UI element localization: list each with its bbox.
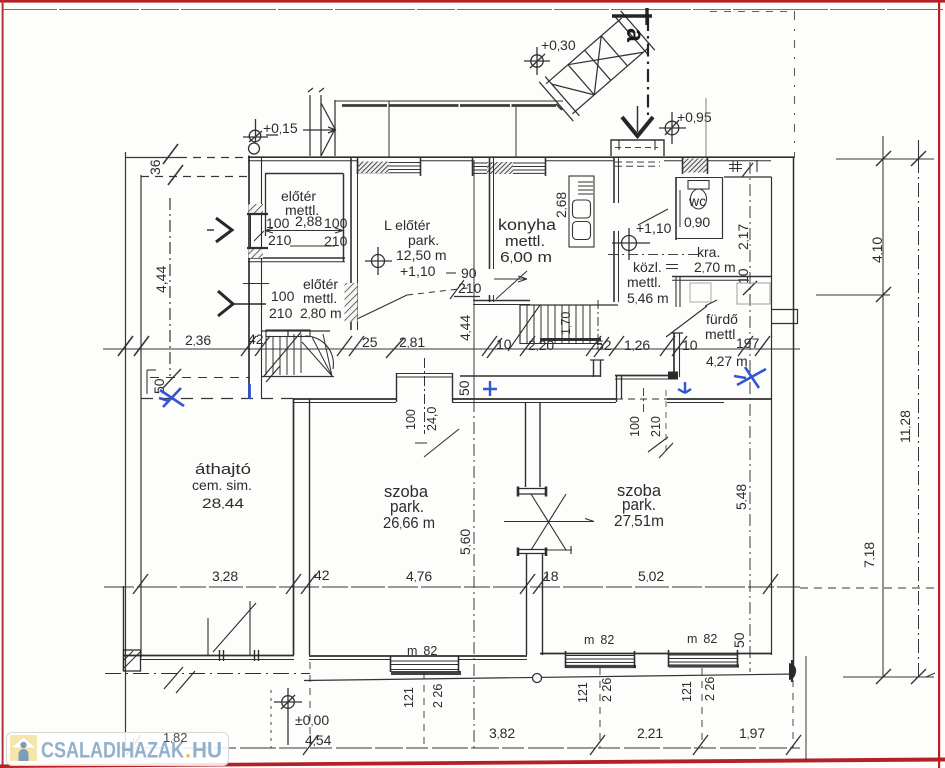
right interior dim chain dash-dot x=750 (749, 162, 751, 672)
hatch block west wall upper bottom line (247, 213, 268, 215)
chimney upper cap end blobs (518, 487, 546, 497)
watermark house roof (11, 737, 36, 748)
svg-text:.: . (185, 738, 191, 763)
szoba2 window2 dark band (669, 664, 739, 667)
west outer wall of front block (248, 156, 250, 400)
top-right dashed section continuation (794, 12, 796, 158)
level circle kozl (622, 236, 637, 251)
chimney diag lower (531, 494, 566, 550)
basement stair bottom line (520, 343, 602, 345)
divider wall athajto inner (309, 399, 311, 655)
roof support tick x=389 (388, 101, 390, 157)
szoba1 window bay left jamb (396, 373, 398, 402)
west wall door jamb lines (251, 214, 262, 248)
vent shaft left rail (309, 95, 311, 156)
wc cistern (688, 181, 709, 190)
entry door dashes in top wall (615, 162, 660, 166)
elorter block east wall outer (350, 157, 352, 330)
szoba1 window sill dark band (391, 671, 461, 675)
basement stair left wall (519, 305, 521, 344)
furdo wall stub inner (679, 333, 681, 377)
szoba2 door dashes (616, 398, 667, 400)
konyha door dim line with arrow (494, 276, 527, 282)
szoba dim line y=587 (104, 586, 800, 588)
dim line room1 with arrows (265, 228, 343, 233)
blue plus mark x=490 (483, 381, 497, 396)
tick slash 36 top (163, 144, 178, 164)
chevron 2 line to wall (233, 303, 266, 305)
right margin bottom arrow (926, 673, 935, 677)
hatch block east wall lower (345, 283, 358, 322)
closet jut right wall (771, 310, 798, 324)
inner wall y=376 konyha-stair block (460, 375, 601, 377)
kitchen sink 2 (573, 222, 591, 240)
vent triangle lower diagonal (321, 129, 335, 156)
chimney box above wall (611, 140, 664, 156)
szoba2 door jambs (617, 375, 622, 402)
szoba dim line y=588 right margin dashes (800, 587, 934, 589)
chimney mid horizontal (504, 519, 594, 522)
szoba1 window sill band edge (391, 669, 459, 671)
kamra top wall outer (672, 276, 771, 278)
garage stair bottom line (262, 376, 334, 378)
watermark person head (20, 742, 26, 748)
kozl level dash line (608, 254, 700, 256)
left 50 bracket vertical (146, 370, 148, 394)
szoba2 window2 end ticks (669, 650, 738, 667)
hatch block west wall lower top line (247, 247, 268, 249)
ladder brace 2 (568, 36, 627, 95)
basement stair thick tread (540, 338, 601, 341)
extension dash x=600 (599, 668, 601, 748)
vent top ticks (308, 88, 324, 92)
small dim ticks right of wc window (733, 160, 757, 172)
slash at x=666 y=450 (659, 443, 673, 458)
middle dim line y=349 (103, 348, 800, 350)
roof support tick x=516 (515, 107, 517, 157)
furdo door swing diagonal (666, 306, 707, 337)
szoba row top wall inner (293, 402, 724, 404)
stub wall between stair and furdo (460, 360, 604, 377)
szoba row top wall outer (293, 398, 772, 400)
middle dim slashes (241, 336, 770, 358)
szoba1 window sill end ticks (391, 656, 459, 672)
center interior dim chain x=474 upper solid (473, 160, 475, 400)
left second dimension line x=141 (140, 175, 142, 658)
garage left post hatch (124, 651, 140, 668)
stub wall cap (590, 359, 604, 361)
basement stair dash-dot center (597, 300, 599, 350)
garage stair landing rect 1 (266, 330, 288, 337)
right dim slash at 883 (876, 151, 891, 166)
kozl-wc door swing (638, 209, 668, 225)
window B sill lines x472-545 (472, 163, 545, 173)
szoba2 bottom wall outer (540, 653, 772, 655)
kitchen unit outline (569, 176, 594, 247)
konyha bottom wall outer (473, 300, 530, 302)
furdo bottom wall outer (615, 375, 672, 377)
level circle front hall cross (365, 247, 392, 275)
ladder brace 3 (552, 68, 594, 112)
slash on 50 bracket (163, 369, 181, 388)
vent arrow line (303, 127, 336, 133)
garage door swing diagonal (213, 603, 256, 652)
small tick pair crossing west wall y=283 (243, 283, 269, 285)
szoba2 window1 dark band (566, 665, 636, 668)
tick slash near 745,170 (742, 163, 753, 177)
szoba1 window sill lines (390, 661, 458, 665)
level marker circle +0,95 (665, 121, 679, 135)
garage door jamb x=208 (207, 618, 209, 655)
ladder rail upper (572, 48, 647, 114)
bottom dim slashes (126, 735, 801, 755)
szoba1 window lines (396, 374, 452, 378)
window A sill lines x357-420 (357, 163, 420, 173)
garage stair diagonal (264, 332, 301, 376)
vent shaft right rail (334, 100, 336, 156)
garage stair landing rect 2 (288, 330, 310, 337)
szoba1 bottom wall inner (309, 659, 527, 661)
blue X mark right (734, 367, 766, 388)
watermark icon yellow square (10, 735, 37, 761)
chimney lower cap extension (546, 546, 572, 554)
west wall door slash (254, 231, 264, 241)
konyha east wall inner (618, 158, 620, 302)
furdo bottom wall inner (615, 378, 672, 380)
szoba1 window center dashline (424, 358, 426, 434)
top-right dashed horizontal y=11 (710, 11, 795, 13)
ladder rungs (568, 36, 627, 95)
right margin hline y=295 (816, 294, 890, 296)
dashed line y=398 garage top main (141, 398, 293, 400)
extension dash x=271 (270, 690, 272, 748)
window B end ticks (473, 158, 546, 176)
faint dash vertical x=666 (665, 390, 667, 455)
szoba2 window1 sill lines (565, 656, 634, 663)
right margin slash y=295 (876, 287, 891, 302)
section cut dash-dot line (647, 18, 649, 115)
blue arrow mark x=685 (678, 382, 691, 393)
window A end ticks (358, 158, 421, 176)
eloter rooms divider wall y=258 (248, 257, 345, 259)
extension dash x=310 (309, 662, 311, 750)
scan frame bottom red line (0, 758, 945, 768)
scan frame left red line (2, 0, 4, 768)
garage bottom wall outer (123, 655, 294, 657)
wc room east line (722, 178, 724, 240)
right margin bottom slashes (876, 669, 926, 684)
szoba1 bottom wall outer (309, 655, 527, 657)
wash basin faint (690, 283, 711, 302)
furdo door swing tip (705, 300, 717, 306)
slash on right chain y=288 (743, 281, 757, 295)
wc west wall (675, 177, 677, 240)
right margin vline x=883 (882, 159, 884, 677)
szoba1 window label slash (424, 429, 459, 457)
eaves tick line y=157 left (125, 157, 179, 159)
level marker circle +0,30 (531, 55, 543, 67)
window B hatch block (487, 162, 513, 174)
basement stair top line (520, 304, 618, 306)
right dim stub x=918 (918, 140, 920, 160)
chimney upper stub west line (525, 402, 527, 487)
garage stair steps (266, 334, 301, 375)
szoba1 window bay right jamb (452, 373, 454, 402)
wc room top line (676, 177, 723, 179)
attic ladder group rotated (539, 11, 655, 121)
section mark a: cross tick (645, 8, 648, 25)
slash at stair edge on dash line (266, 366, 280, 382)
chimney upper stub east line (539, 402, 541, 487)
right dim slash at 918 (911, 151, 926, 166)
eloter room1 right wall (343, 174, 345, 263)
konyha east wall outer (613, 158, 615, 302)
roof band end hook (556, 104, 562, 110)
bath tub faint outline (737, 283, 770, 304)
eloter room1 inner door line (290, 245, 335, 247)
konyha west wall inner (493, 158, 495, 302)
dashed line y=377 garage top (150, 377, 250, 379)
roof overhang thin line y=101 (335, 100, 563, 102)
szoba1 window small hline (415, 442, 427, 444)
door swing dashes continue (407, 288, 468, 295)
kitchen sink 1 (573, 200, 591, 218)
blue tick mark x=249 (248, 384, 251, 399)
konyha west wall outer (489, 158, 491, 302)
underline of 210 (454, 296, 480, 298)
right top dim line y=159 (836, 158, 934, 160)
right dim stub x=883 (882, 136, 884, 160)
entry chevron 1 (216, 218, 232, 242)
corner dark blob (789, 663, 796, 680)
right inner wall top corner line y=177 (724, 176, 772, 178)
ladder end cap left (615, 11, 655, 55)
furdo stub cap (671, 332, 683, 334)
chimney upper cap lines (518, 489, 546, 495)
entrance arrow stem (637, 106, 639, 132)
terrace ground line right (304, 674, 795, 681)
chimney lower cap end blobs (518, 548, 546, 557)
building right outer wall (793, 158, 795, 673)
garage stair top line (262, 330, 330, 332)
chimney box inner dashes (615, 147, 658, 149)
chimney lower stub east (542, 554, 544, 655)
watermark csaladihazak.hu (6, 732, 229, 766)
kamra top wall inner (672, 279, 749, 281)
garage outer west wall lower (123, 586, 125, 671)
chimney lower cap lines (518, 550, 546, 554)
terrace circle left end (533, 674, 542, 683)
dim slash on x=141 at y=349 (134, 336, 149, 356)
slash between 90 210 (450, 280, 464, 299)
garage stair winder radials (302, 334, 332, 376)
svg-text:CSALADIHAZAK: CSALADIHAZAK (41, 738, 184, 763)
vent triangle upper diagonal (321, 103, 335, 129)
corner blob stem (791, 660, 793, 682)
stub wall verticals x=593-601 (594, 360, 601, 377)
main top wall inner line (248, 160, 771, 162)
scan frame top red line (0, 0, 945, 3)
window C end ticks (683, 158, 708, 174)
chimney lower stub west (526, 554, 528, 655)
window C hatch block wc (683, 159, 708, 173)
szoba2 door center dashdot (643, 388, 645, 412)
extension solid x=806 (805, 656, 807, 760)
gate tick pair 1 (220, 650, 224, 661)
eloter rooms divider wall inner (248, 261, 345, 263)
level marker +0,95 cross (659, 112, 686, 144)
szoba2 window1 end ticks (566, 651, 635, 668)
level circle 0,00 cross (274, 688, 302, 745)
level circle 0,00 (282, 696, 295, 709)
gate tick pair 2 (255, 650, 259, 661)
equal ticks left of kamra (666, 265, 678, 269)
wc bowl (691, 189, 707, 209)
scan top gray edge line (2, 9, 943, 11)
garage apron line y=673 (105, 673, 310, 675)
furdo bottom wall dark post (668, 372, 678, 380)
chimney diag upper (531, 494, 566, 550)
garage stair arc (305, 336, 333, 369)
level marker cross lines (243, 119, 268, 142)
garage apron slash 1 (164, 667, 183, 689)
dim slash on x=125 at y=349 (118, 336, 133, 356)
main top wall outer line (248, 156, 794, 158)
divider wall athajto outer (293, 399, 295, 655)
garage bottom wall inner (141, 659, 294, 661)
blue X mark left (159, 388, 184, 407)
szoba dim slashes y=587 (133, 574, 778, 594)
right margin bottom line y=677 (843, 676, 934, 678)
wc room bottom line (676, 238, 723, 240)
hatch block west wall lower (249, 249, 264, 258)
building right inner wall (771, 177, 773, 655)
faint vertical x=706 (705, 98, 707, 158)
section mark a: thick bar (612, 14, 652, 17)
extension dash x=702 (701, 668, 703, 748)
scan frame right red line (938, 0, 940, 768)
svg-text:HU: HU (192, 738, 222, 763)
underline of +0,15 (266, 134, 278, 136)
furdo wall stub at door (673, 333, 675, 377)
door swing diagonal from east wall (357, 295, 407, 319)
dashed eaves line y=157 to building (179, 157, 248, 159)
konyha door swing (496, 271, 527, 299)
elorter block east wall inner (357, 157, 359, 330)
window A hatch block (359, 162, 389, 174)
ladder rail lower (546, 18, 621, 84)
level marker circle +0,15 (249, 130, 261, 142)
chimney box inner ticks (619, 140, 655, 150)
small equal ticks above wc window (729, 165, 742, 169)
tick slash at x=141 y=177 (168, 165, 183, 185)
ladder brace 1 (568, 22, 643, 95)
ladder end cap right (539, 77, 579, 121)
szoba2 window2 sill lines (668, 655, 737, 662)
west inner wall of front block (261, 157, 263, 399)
wc west wall inner (679, 190, 681, 227)
level marker circle lower (249, 143, 260, 154)
szoba2 door label slash (648, 437, 668, 452)
roof overhang thick band y=105.5 (342, 104, 556, 107)
garage left post block (124, 650, 141, 671)
bottom dim line y=748 (118, 747, 800, 749)
konyha bottom wall inner (473, 304, 530, 306)
dash left of 90 (446, 272, 456, 274)
left 50 bracket top (147, 369, 156, 371)
entrance big arrow chevron (622, 117, 653, 136)
left interior dim chain x=170 dash-dot (169, 198, 171, 376)
kamra west wall stub (676, 277, 680, 307)
entry chevron 2 (218, 291, 233, 316)
vent shaft mid rail (320, 95, 322, 156)
right margin dashdot x=918 (918, 159, 920, 677)
level circle kozl cross (612, 228, 650, 260)
garage apron slash 2 (176, 671, 195, 693)
chevron 1 dash (207, 229, 214, 231)
kitchen stove lines (578, 182, 593, 194)
level circle front hall (372, 255, 385, 268)
garage door jamb x=250 (249, 601, 251, 655)
dashed wall line y=176.5 to building (141, 176, 248, 178)
bottom dim stub x=133 (133, 738, 135, 758)
eloter room1 top wall y=174 (265, 173, 344, 175)
level marker +0,30 cross (524, 47, 550, 75)
stair up diagonal arrow (508, 305, 540, 351)
watermark person body (19, 749, 29, 761)
center interior dim chain x=474 lower dash-dot (473, 400, 475, 750)
basement stair steps (527, 305, 590, 344)
extension dash x=793 (792, 680, 794, 748)
left outer dimension line x=125 (125, 152, 127, 750)
eloter room1 left wall (265, 174, 267, 237)
hatch block west wall upper (249, 204, 264, 214)
extension dash x=424 (423, 672, 425, 748)
